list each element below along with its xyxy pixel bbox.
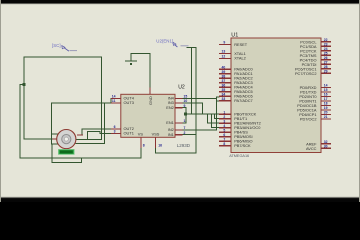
screen letterbox bars: [0, 0, 360, 5]
svg-text:29: 29: [324, 69, 328, 73]
chip U1 ATMEGA16 body: [231, 38, 321, 153]
net label SC: [52, 43, 77, 51]
svg-text:U2: U2: [178, 84, 185, 90]
wire top rectangle horizontal: [24, 56, 102, 58]
svg-text:2: 2: [223, 115, 225, 119]
svg-text:7: 7: [223, 137, 225, 141]
wire IN4 to PA6: [183, 97, 219, 130]
svg-text:PB7/SCK: PB7/SCK: [234, 143, 251, 148]
svg-text:VS: VS: [138, 131, 144, 136]
U2 left pin names: [124, 96, 135, 136]
svg-text:9: 9: [223, 41, 225, 45]
wire VSS to right: [156, 148, 196, 153]
svg-text:27: 27: [324, 60, 328, 64]
svg-text:GND: GND: [148, 96, 153, 105]
wire IN3 down to EN row: [183, 103, 203, 114]
wire motor upper-left tap: [51, 133, 57, 135]
svg-text:22: 22: [324, 38, 328, 42]
wire to motor left pin: [24, 138, 53, 140]
svg-text:EN2: EN2: [166, 105, 174, 110]
ground: [126, 54, 137, 66]
svg-text:U1: U1: [231, 32, 238, 38]
wire VS pin down to bottom bus: [140, 148, 142, 158]
svg-text:20: 20: [324, 111, 328, 115]
svg-text:IN1: IN1: [168, 132, 174, 137]
svg-text:U2(EN1): U2(EN1): [156, 39, 174, 44]
wire branch to PB2: [208, 114, 219, 123]
svg-text:6: 6: [114, 125, 116, 129]
svg-text:RESET: RESET: [234, 42, 248, 47]
svg-text:AVCC: AVCC: [306, 146, 317, 151]
svg-text:1: 1: [223, 110, 225, 114]
svg-text:OUT3: OUT3: [124, 100, 134, 105]
svg-text:33: 33: [222, 97, 226, 101]
U1 left pin names: [234, 42, 261, 148]
svg-text:2: 2: [184, 131, 186, 135]
svg-text:L293D: L293D: [177, 143, 191, 148]
svg-text:3: 3: [114, 130, 116, 134]
svg-text:28: 28: [324, 65, 328, 69]
U1 left pins: [219, 45, 231, 146]
svg-text:12: 12: [222, 55, 226, 59]
svg-text:17: 17: [324, 97, 328, 101]
svg-text:PD7/OC2: PD7/OC2: [300, 117, 317, 122]
svg-text:7: 7: [184, 126, 186, 130]
svg-text:6: 6: [223, 133, 225, 137]
wire label link: [187, 47, 196, 49]
motor M1: [53, 130, 84, 149]
svg-text:16: 16: [158, 144, 162, 148]
svg-text:15: 15: [324, 88, 328, 92]
svg-text:XTAL2: XTAL2: [234, 56, 246, 61]
chip U2 L293D body: [121, 94, 175, 137]
node junction left: [23, 83, 26, 86]
svg-text:21: 21: [324, 115, 328, 119]
svg-text:1: 1: [184, 119, 186, 123]
wire branch to PB1: [214, 114, 219, 119]
wire motor left link bar: [50, 103, 52, 144]
wire IN2 to shared vertical: [183, 129, 217, 131]
svg-text:23: 23: [324, 42, 328, 46]
svg-text:10: 10: [184, 99, 188, 103]
svg-text:PC7/TOSC2: PC7/TOSC2: [295, 71, 317, 76]
svg-text:36: 36: [222, 83, 226, 87]
wire motor bottom jog: [52, 144, 81, 163]
svg-text:4: 4: [223, 124, 225, 128]
svg-text:14: 14: [112, 95, 116, 99]
U1 right pins: [321, 42, 331, 149]
svg-text:14: 14: [324, 84, 328, 88]
U2 right pin numbers: [184, 95, 188, 135]
svg-text:PA7/ADC7: PA7/ADC7: [234, 98, 253, 103]
U2 bottom pin numbers: [143, 144, 162, 148]
svg-text:5: 5: [223, 128, 225, 132]
wire OUT2 to motor right stub: [82, 129, 111, 135]
wire branch to far left: [20, 85, 24, 159]
svg-text:ATMEGA16: ATMEGA16: [229, 154, 249, 158]
U2 bottom pin names: [138, 131, 160, 136]
svg-text:15: 15: [184, 95, 188, 99]
wire motor arc lower-right to vertical: [76, 103, 105, 144]
wire EN net to PB0: [186, 113, 219, 115]
wire OUT4-OUT3 tie: [110, 98, 112, 103]
svg-text:30: 30: [324, 144, 328, 148]
wire motor lower-right row: [77, 138, 102, 140]
svg-text:18: 18: [324, 102, 328, 106]
svg-text:VSS: VSS: [152, 131, 160, 136]
U2 right pin names: [166, 96, 174, 137]
U1 right pin numbers: [324, 38, 328, 148]
wire EN2-EN1 tie: [183, 108, 186, 123]
svg-text:3: 3: [223, 119, 225, 123]
wire right vertical of top rectangle: [101, 57, 103, 139]
net label U2(EN1): [156, 39, 188, 47]
wire IN1 to VSS vertical: [183, 134, 196, 136]
wire net label vertical 1: [190, 48, 192, 114]
svg-text:OUT1: OUT1: [124, 131, 134, 136]
wire bottom bus: [20, 157, 141, 159]
svg-text:13: 13: [222, 50, 226, 54]
svg-text:39: 39: [222, 70, 226, 74]
U2 bottom pins VS VSS: [141, 137, 156, 148]
wire ground to U2 top pin: [131, 54, 150, 88]
svg-text:35: 35: [222, 88, 226, 92]
wire motor lower-left tap: [51, 143, 57, 145]
svg-text:26: 26: [324, 56, 328, 60]
wire OUT1 jog path: [88, 132, 111, 140]
svg-text:EN1: EN1: [166, 120, 174, 125]
svg-text:16: 16: [324, 93, 328, 97]
svg-text:25: 25: [324, 51, 328, 55]
svg-text:34: 34: [222, 92, 226, 96]
U2 right pins: [175, 98, 183, 134]
U2 left pins: [111, 98, 121, 133]
wire PA7 tap: [216, 100, 219, 102]
svg-text:[SC]: [SC]: [52, 43, 61, 48]
U2 left pin numbers: [112, 95, 116, 134]
wire branch to PB3: [211, 114, 219, 128]
U2 top pin GND stub: [149, 87, 151, 94]
U1 right pin names: [295, 40, 317, 152]
svg-text:32: 32: [324, 140, 328, 144]
svg-text:9: 9: [184, 104, 186, 108]
svg-text:38: 38: [222, 74, 226, 78]
node EN junction dot: [184, 112, 187, 115]
svg-text:8: 8: [223, 142, 225, 146]
wire net label vertical 2 to VSS: [195, 48, 197, 153]
svg-text:19: 19: [324, 106, 328, 110]
svg-text:37: 37: [222, 79, 226, 83]
svg-text:11: 11: [112, 99, 116, 103]
wire left vertical: [23, 57, 25, 139]
wire OUT3 to left: [51, 102, 111, 104]
svg-text:8: 8: [143, 144, 145, 148]
U1 left pin numbers: [222, 41, 226, 146]
motor RPM display: [58, 149, 74, 154]
svg-text:24: 24: [324, 47, 328, 51]
svg-text:40: 40: [222, 65, 226, 69]
